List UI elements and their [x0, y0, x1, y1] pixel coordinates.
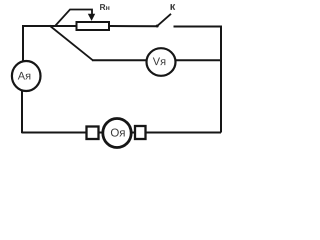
rheostat R1 wiper arrowhead [88, 14, 95, 21]
switch K lever [157, 14, 171, 26]
svg-text:Ая: Ая [18, 71, 31, 83]
wire diagonal to voltmeter line [50, 26, 94, 61]
svg-text:Vя: Vя [153, 56, 166, 68]
resistor Rн body [77, 22, 110, 30]
brush right rectangle [135, 126, 146, 139]
wire right rail [220, 26, 222, 133]
wire switch to top-right corner [174, 26, 222, 29]
motor armature Оя circle [103, 119, 131, 148]
switch K contact dot [156, 25, 159, 28]
wire top-left vertical (left rail upper) [22, 26, 24, 62]
wire rheostat to switch [110, 25, 157, 27]
svg-text:к: к [170, 1, 176, 13]
svg-text:Rн: Rн [99, 2, 109, 12]
wire brush stubs to motor [96, 132, 136, 134]
wire left rail lower [21, 90, 23, 133]
voltmeter V (Vя) circle [147, 48, 176, 76]
wire top rail left segment [22, 25, 76, 27]
rheostat R1 wiper arm [56, 10, 93, 26]
svg-text:Оя: Оя [110, 128, 125, 140]
wire bottom rail left [22, 132, 88, 134]
wire voltmeter line [92, 59, 221, 61]
ammeter A (Ая) circle [12, 61, 41, 91]
brush left rectangle [87, 127, 99, 140]
wire bottom rail right [144, 132, 221, 134]
